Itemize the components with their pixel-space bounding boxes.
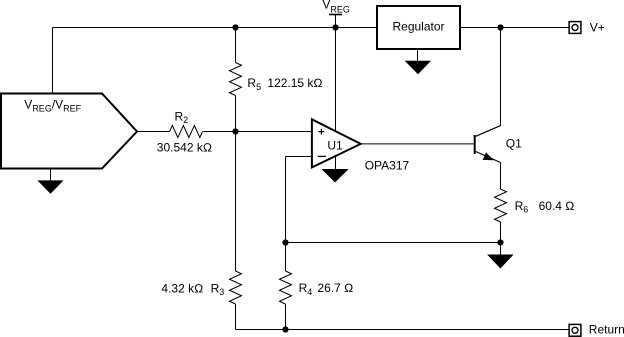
- wire R5 top lead: [235, 28, 237, 63]
- junction dot bottom rail R4: [282, 326, 288, 332]
- ground under R6 node: [500, 243, 502, 255]
- op-amp plus input mark: [319, 129, 325, 135]
- svg-text:122.15 kΩ: 122.15 kΩ: [267, 76, 322, 90]
- junction dot top VREG: [332, 24, 338, 30]
- wire top rail right: [460, 27, 569, 29]
- svg-text:R6: R6: [515, 199, 529, 215]
- wire left drop to reference block: [52, 28, 54, 94]
- ground under reference block: [50, 169, 52, 181]
- svg-text:OPA317: OPA317: [365, 158, 410, 172]
- svg-text:Return: Return: [589, 322, 624, 336]
- svg-text:Q1: Q1: [506, 136, 522, 150]
- svg-text:V+: V+: [590, 21, 605, 35]
- svg-text:VREG: VREG: [322, 0, 350, 14]
- wire op-amp minus input: [286, 156, 312, 158]
- power tap VREG stem: [335, 15, 337, 28]
- junction dot feedback left: [282, 239, 288, 245]
- wire R4 bottom lead: [285, 304, 287, 330]
- wire R2 left lead: [137, 131, 170, 133]
- terminal Return: [569, 324, 581, 336]
- svg-text:Regulator: Regulator: [392, 20, 444, 34]
- resistor R2: [170, 126, 203, 138]
- svg-text:4.32 kΩ: 4.32 kΩ: [161, 281, 203, 295]
- transistor Q1 emitter arrow: [483, 152, 494, 160]
- op-amp minus input mark: [318, 155, 326, 157]
- transistor Q1 emitter lead: [476, 152, 501, 163]
- svg-text:R3: R3: [211, 281, 225, 297]
- resistor R6: [495, 189, 507, 222]
- svg-text:U1: U1: [327, 139, 343, 153]
- wire Q1 collector vertical: [500, 28, 502, 126]
- wire bottom rail: [236, 329, 569, 331]
- power tap VREG bar: [329, 14, 342, 16]
- junction dot R2 R5 R3 opamp: [232, 128, 238, 134]
- wire feedback horizontal to R6 node: [286, 242, 501, 244]
- wire R3 bottom lead: [235, 304, 237, 330]
- transistor Q1 collector lead: [476, 126, 501, 137]
- junction dot top R5: [232, 24, 238, 30]
- wire R3 top lead: [235, 132, 237, 272]
- wire feedback vertical upper: [285, 157, 287, 272]
- ground under op-amp: [335, 157, 337, 169]
- resistor R5: [230, 63, 242, 96]
- wire op-amp power from VREG node: [335, 28, 337, 132]
- transistor Q1 base bar: [474, 135, 476, 154]
- svg-text:R2: R2: [175, 109, 189, 125]
- reference block VREG/VREF: [1, 94, 137, 169]
- wire R6 bottom lead: [500, 222, 502, 243]
- svg-text:60.4 Ω: 60.4 Ω: [539, 199, 575, 213]
- resistor R3: [230, 271, 242, 304]
- wire Q1 emitter vertical: [500, 163, 502, 190]
- svg-text:30.542 kΩ: 30.542 kΩ: [157, 141, 212, 155]
- regulator box: [377, 6, 460, 49]
- ground under regulator: [417, 49, 419, 61]
- wire R5 bottom lead: [235, 96, 237, 132]
- svg-text:R4: R4: [299, 281, 313, 297]
- op-amp U1: [312, 119, 361, 167]
- svg-text:R5: R5: [247, 76, 261, 92]
- svg-text:26.7 Ω: 26.7 Ω: [317, 281, 353, 295]
- junction dot top collector: [497, 24, 503, 30]
- wire op-amp output to Q1 base: [361, 143, 474, 145]
- resistor R4: [280, 271, 292, 304]
- wire R2 to op-amp plus input: [203, 131, 312, 133]
- wire top rail left: [53, 27, 378, 29]
- junction dot R6 bottom: [497, 239, 503, 245]
- terminal V+: [569, 22, 581, 34]
